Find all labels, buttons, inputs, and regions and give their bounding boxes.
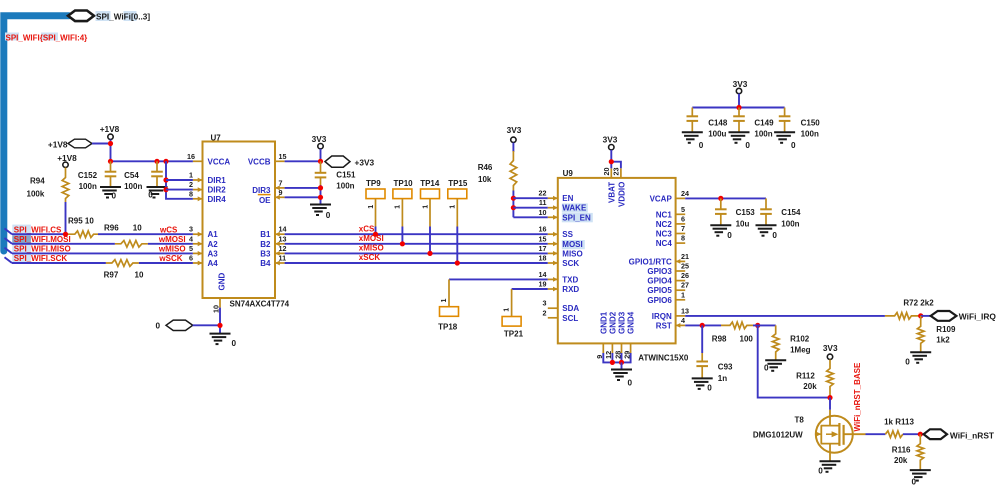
wire VCCB to 3V3: [285, 160, 321, 162]
U9 pin 13 IRQN: [676, 315, 686, 317]
U9 pin 6 NC2: [676, 223, 686, 225]
wire EN: [513, 197, 547, 199]
junction: [400, 241, 405, 246]
wire U9 gnd bracket: [603, 353, 630, 362]
junction EN: [511, 196, 516, 201]
resistor R94 100k: [62, 168, 69, 203]
wire TP14 to row: [429, 227, 431, 254]
svg-text:0: 0: [745, 141, 750, 150]
svg-text:GND1: GND1: [599, 311, 608, 334]
highlight MOSI dark: [12, 235, 31, 244]
U9 pin 20 VBAT: [610, 168, 612, 178]
highlight WAKE: [562, 203, 588, 212]
wire DIR2: [166, 189, 193, 191]
svg-text:C148: C148: [708, 118, 728, 127]
svg-text:0: 0: [155, 322, 160, 331]
svg-text:SCK: SCK: [562, 259, 579, 268]
wire MOSI: [12, 243, 115, 245]
port WiFi_nRST: [924, 429, 947, 439]
svg-text:8: 8: [681, 234, 685, 243]
ground C93: [692, 377, 713, 379]
capacitor C150 100n: [784, 108, 786, 117]
U9 pin 24 VCAP: [676, 197, 686, 199]
svg-text:3: 3: [189, 225, 193, 234]
wire C151 to gnd thru DIR3/OE taps: [320, 185, 322, 205]
junction: [373, 232, 378, 237]
svg-text:VDDIO: VDDIO: [617, 182, 626, 207]
svg-text:VCCA: VCCA: [208, 157, 231, 166]
IC U9 ATWINC15X0 body: [558, 178, 676, 344]
ground C148: [682, 131, 703, 133]
svg-text:TP9: TP9: [366, 179, 381, 188]
svg-text:MOSI: MOSI: [562, 240, 582, 249]
svg-text:+1V8: +1V8: [57, 153, 77, 163]
svg-text:WiFi_IRQ: WiFi_IRQ: [959, 312, 997, 322]
U9 pin 17 MISO: [548, 252, 558, 254]
ground C54: [147, 186, 168, 188]
wire flag to node: [92, 143, 111, 145]
testpoint TP15: [448, 189, 467, 199]
U7 pin 8 DIR4: [193, 198, 203, 200]
svg-text:C149: C149: [754, 118, 774, 127]
svg-text:0: 0: [112, 192, 117, 201]
wire gnd stem: [621, 362, 623, 369]
wire xMISO: [285, 252, 548, 254]
svg-text:0: 0: [791, 141, 796, 150]
svg-text:8: 8: [189, 189, 193, 198]
U9 pin 5 NC1: [676, 213, 686, 215]
capacitor C54 100n: [156, 161, 158, 171]
svg-text:T8: T8: [795, 416, 805, 425]
bus SPI_WIFI (thick): [4, 16, 69, 251]
svg-text:23: 23: [612, 168, 621, 176]
svg-text:SCL: SCL: [562, 314, 578, 323]
U9 GND pins 9 12 28 29: [602, 343, 604, 353]
U9 pin 18 SCK: [548, 262, 558, 264]
wire to R102: [753, 324, 776, 326]
svg-text:C54: C54: [124, 171, 139, 180]
svg-text:0: 0: [912, 478, 917, 487]
svg-text:SPI_WIFI.CS: SPI_WIFI.CS: [14, 225, 62, 234]
junction: [455, 260, 460, 265]
wire 3V3 to VBAT/VDDIO: [610, 150, 612, 168]
highlight column: [12, 225, 31, 264]
svg-text:10u: 10u: [736, 219, 750, 228]
U9 pin 27 GPIO5: [676, 289, 686, 291]
junction rail: [108, 159, 113, 164]
wire to port: [921, 315, 931, 317]
U9 pin 14 TXD: [548, 278, 558, 280]
junction: [755, 323, 760, 328]
svg-text:NC2: NC2: [656, 220, 673, 229]
svg-text:100u: 100u: [708, 130, 726, 139]
bus entry MISO: [5, 248, 13, 254]
svg-text:TP14: TP14: [420, 179, 440, 188]
wire wSCK: [139, 262, 193, 264]
ground C149: [729, 131, 750, 133]
svg-text:VBAT: VBAT: [608, 182, 617, 203]
svg-text:7: 7: [279, 178, 283, 187]
U9 pin 8 NC4: [676, 242, 686, 244]
wire RXD: [512, 288, 548, 290]
svg-text:SPI_WIFI.SCK: SPI_WIFI.SCK: [14, 254, 68, 263]
svg-text:GND3: GND3: [618, 311, 627, 334]
svg-text:18: 18: [539, 254, 547, 263]
U9 pin 3 SDA: [548, 307, 558, 309]
svg-text:wSCK: wSCK: [158, 254, 182, 263]
wire RST: [685, 324, 721, 326]
svg-text:VCAP: VCAP: [650, 194, 673, 203]
svg-text:SPI_WIFI{SPI_WIFI:4}: SPI_WIFI{SPI_WIFI:4}: [6, 34, 88, 43]
U7 pin 6 A4: [193, 262, 203, 264]
svg-text:15: 15: [279, 152, 287, 161]
svg-text:100n: 100n: [781, 219, 799, 228]
power flag +3V3 hexagon: [325, 156, 350, 167]
testpoint TP21: [511, 289, 513, 317]
capacitor C93 1n: [701, 325, 703, 353]
svg-text:C150: C150: [801, 118, 821, 127]
svg-text:TP18: TP18: [438, 323, 458, 332]
svg-text:5: 5: [681, 205, 685, 214]
svg-text:GPIO1/RTC: GPIO1/RTC: [629, 257, 672, 266]
resistor R113 1k: [885, 431, 903, 438]
capacitor C152 100n: [110, 161, 112, 171]
ground U9: [611, 369, 632, 371]
junction WAKE: [511, 205, 516, 210]
svg-text:WiFi_nRST: WiFi_nRST: [950, 430, 995, 440]
svg-text:15: 15: [539, 234, 547, 243]
svg-text:0: 0: [764, 363, 769, 372]
svg-text:27: 27: [681, 281, 689, 290]
svg-text:100n: 100n: [336, 182, 354, 191]
capacitor C149 100n: [738, 108, 740, 117]
svg-text:100k: 100k: [27, 190, 45, 199]
U9 pin 7 NC3: [676, 233, 686, 235]
junction gate node: [827, 395, 832, 400]
svg-text:R116: R116: [892, 445, 911, 454]
U9 pin 26 GPIO4: [676, 280, 686, 282]
wire gate node down: [829, 398, 831, 410]
wire +1V8 down: [110, 140, 112, 162]
junction: [918, 313, 923, 318]
U9 pin 10 SPI_EN: [548, 216, 558, 218]
junction: [736, 105, 741, 110]
U7 pin 10 GND: [219, 298, 221, 308]
wire xSCK: [285, 262, 548, 264]
U7 pin 15 VCCB: [275, 160, 285, 162]
svg-text:100n: 100n: [79, 182, 97, 191]
U9 pin 2 SCL: [548, 317, 558, 319]
svg-text:10k: 10k: [478, 175, 492, 184]
junction 3V3: [318, 159, 323, 164]
transistor T8 DMG1012UW: [816, 416, 853, 453]
svg-text:U9: U9: [563, 169, 574, 178]
resistor R109 1k2: [917, 316, 924, 352]
svg-text:A1: A1: [208, 230, 219, 239]
svg-text:U7: U7: [211, 134, 222, 143]
U7 pin 12 B3: [275, 252, 285, 254]
resistor R96 10: [115, 241, 148, 248]
junctions: [610, 360, 615, 365]
svg-text:IRQN: IRQN: [652, 312, 672, 321]
svg-text:OE: OE: [259, 196, 271, 205]
U7 pin 3 A1: [193, 233, 203, 235]
wire gate to R113: [866, 433, 886, 435]
svg-text:C152: C152: [78, 171, 98, 180]
svg-text:9: 9: [279, 188, 283, 197]
wire TP10 to row: [401, 227, 403, 244]
junction: [609, 159, 614, 164]
svg-text:R98: R98: [712, 334, 727, 343]
wire WAKE: [513, 207, 547, 209]
svg-text:xMISO: xMISO: [359, 244, 384, 253]
junction: [318, 185, 323, 190]
svg-text:11: 11: [279, 254, 287, 263]
U9 pin 19 RXD: [548, 288, 558, 290]
svg-text:14: 14: [279, 225, 287, 234]
bus port SPI_WiFi[0..3]: [68, 11, 94, 22]
svg-text:0: 0: [628, 379, 633, 388]
svg-text:3V3: 3V3: [823, 343, 838, 353]
svg-text:0: 0: [699, 141, 704, 150]
svg-text:VCCB: VCCB: [248, 157, 271, 166]
wire MISO: [12, 252, 193, 254]
svg-text:A3: A3: [208, 249, 219, 258]
wire xCS: [285, 233, 548, 235]
svg-text:1: 1: [189, 171, 193, 180]
capacitor C153 10u: [720, 198, 722, 209]
ground C154: [756, 224, 777, 226]
highlight SPI_EN: [562, 213, 593, 222]
resistor R97 10: [106, 260, 139, 267]
svg-text:3V3: 3V3: [507, 125, 522, 135]
svg-text:GND4: GND4: [627, 311, 636, 334]
wire SCK: [12, 262, 106, 264]
wire TP9 to row: [375, 227, 377, 235]
svg-text:1: 1: [420, 205, 429, 209]
ground R102: [765, 359, 786, 361]
svg-text:xMOSI: xMOSI: [359, 234, 384, 243]
svg-text:SS: SS: [562, 230, 573, 239]
svg-text:20: 20: [602, 168, 611, 176]
svg-text:DIR1: DIR1: [208, 176, 227, 185]
U9 pin 1 GPIO6: [676, 299, 686, 301]
U9 pin 4 RST: [676, 324, 686, 326]
bus net label SPI_WIFI{SPI_WIFI:4}: [5, 33, 19, 41]
svg-text:6: 6: [189, 254, 193, 263]
svg-text:11: 11: [539, 198, 547, 207]
ground C152: [100, 186, 121, 188]
U7 pin 2 DIR2: [193, 189, 203, 191]
junction: [918, 432, 923, 437]
channel arrow: [826, 433, 832, 435]
svg-text:B3: B3: [260, 249, 271, 258]
svg-text:13: 13: [279, 234, 287, 243]
svg-text:1: 1: [448, 205, 457, 209]
svg-text:wMISO: wMISO: [158, 245, 186, 254]
svg-text:RXD: RXD: [562, 285, 579, 294]
svg-text:NC4: NC4: [656, 239, 673, 248]
wire wCS: [98, 233, 193, 235]
svg-text:+1V8: +1V8: [100, 124, 120, 134]
svg-text:TP21: TP21: [504, 330, 524, 339]
wire DIR1: [166, 179, 193, 181]
svg-text:20k: 20k: [803, 382, 817, 391]
svg-text:4: 4: [681, 316, 685, 325]
svg-text:25: 25: [681, 262, 689, 271]
svg-text:100n: 100n: [754, 130, 772, 139]
bus entry MOSI: [5, 238, 13, 244]
U9 pin 22 EN: [548, 197, 558, 199]
wire +1V8 rail: [111, 160, 193, 162]
resistor R116 20k: [917, 434, 924, 470]
svg-text:SN74AXC4T774: SN74AXC4T774: [230, 299, 290, 308]
IC U7 SN74AXC4T774 body: [203, 142, 276, 299]
resistor R98 100: [721, 322, 753, 329]
svg-text:100n: 100n: [801, 130, 819, 139]
svg-text:DIR2: DIR2: [208, 186, 227, 195]
U9 pin 11 WAKE: [548, 207, 558, 209]
capacitor C148 100u: [691, 108, 693, 117]
svg-text:R95 10: R95 10: [68, 217, 94, 226]
svg-text:B1: B1: [260, 230, 271, 239]
wire OE: [285, 196, 321, 198]
svg-text:21: 21: [681, 252, 689, 261]
svg-text:NC3: NC3: [656, 230, 673, 239]
U7 pin 11 B4: [275, 262, 285, 264]
svg-text:TXD: TXD: [562, 275, 578, 284]
testpoint TP14: [421, 189, 440, 199]
U7 pin 14 B1: [275, 233, 285, 235]
svg-text:26: 26: [681, 271, 689, 280]
svg-text:1n: 1n: [718, 374, 727, 383]
port WiFi_IRQ: [931, 311, 957, 321]
svg-text:100: 100: [740, 334, 754, 343]
U9 pin 21 GPIO1/RTC: [676, 260, 686, 262]
svg-text:GPIO6: GPIO6: [647, 296, 672, 305]
svg-text:R96: R96: [104, 224, 119, 233]
svg-text:GND: GND: [218, 273, 227, 291]
svg-text:10: 10: [133, 224, 142, 233]
svg-text:5: 5: [189, 244, 193, 253]
wire RST to gate node: [758, 325, 830, 397]
svg-text:C154: C154: [781, 208, 801, 217]
svg-text:0: 0: [772, 231, 777, 240]
wire flag0: [193, 324, 220, 326]
svg-text:3V3: 3V3: [312, 134, 327, 144]
svg-text:R109: R109: [936, 325, 956, 334]
svg-text:1: 1: [366, 205, 375, 209]
svg-text:1: 1: [501, 308, 510, 312]
capacitor C154 100n: [765, 198, 767, 209]
svg-text:1k R113: 1k R113: [884, 418, 914, 427]
ground C150: [774, 131, 795, 133]
svg-text:WAKE: WAKE: [562, 204, 587, 213]
body arrow: [816, 431, 822, 436]
svg-text:+3V3: +3V3: [355, 157, 375, 167]
svg-text:GND2: GND2: [608, 311, 617, 334]
svg-text:10: 10: [135, 270, 144, 279]
svg-text:17: 17: [539, 244, 547, 253]
svg-text:0: 0: [727, 231, 732, 240]
power port +1V8 (circle): [108, 134, 113, 139]
svg-text:3V3: 3V3: [603, 134, 618, 144]
svg-text:2: 2: [189, 180, 193, 189]
svg-text:16: 16: [539, 225, 547, 234]
svg-text:1Meg: 1Meg: [790, 346, 811, 355]
wire 3V3 rail: [738, 94, 740, 108]
svg-text:1: 1: [439, 299, 448, 303]
svg-text:6: 6: [681, 214, 685, 223]
U7 pin 9 OE: [275, 196, 285, 198]
U9 pin 16 SS: [548, 233, 558, 235]
bus entry SCK: [5, 257, 13, 263]
svg-text:SDA: SDA: [562, 304, 579, 313]
junction: [700, 323, 705, 328]
svg-text:12: 12: [279, 244, 287, 253]
wire DIR drop: [166, 161, 193, 199]
svg-text:wMOSI: wMOSI: [158, 235, 186, 244]
svg-text:22: 22: [539, 189, 547, 198]
U9 pin 25 GPIO3: [676, 270, 686, 272]
svg-text:R94: R94: [30, 177, 45, 186]
svg-text:MISO: MISO: [562, 249, 582, 258]
gate wire: [844, 433, 866, 435]
svg-text:GPIO3: GPIO3: [647, 267, 672, 276]
testpoint TP10: [393, 189, 412, 199]
svg-text:R72 2k2: R72 2k2: [903, 299, 934, 308]
svg-text:TP10: TP10: [394, 179, 414, 188]
svg-text:DIR4: DIR4: [208, 195, 227, 204]
svg-text:13: 13: [681, 306, 689, 315]
ground R109: [910, 351, 931, 353]
svg-text:16: 16: [187, 152, 195, 161]
wire 3V3 down: [320, 149, 322, 161]
power flag +1V8 hexagon: [68, 139, 92, 148]
ground C151: [310, 204, 331, 206]
svg-text:GPIO5: GPIO5: [647, 286, 672, 295]
resistor R72 2k2: [885, 313, 921, 320]
svg-text:0: 0: [818, 466, 823, 475]
svg-text:R112: R112: [796, 372, 815, 381]
label SPI_WiFi[0..3]: [96, 11, 111, 21]
wire GND down: [219, 308, 221, 334]
resistor R102 1Meg: [772, 325, 779, 360]
svg-text:19: 19: [539, 280, 547, 289]
svg-text:2: 2: [543, 308, 547, 317]
junction: [108, 141, 113, 146]
U9 pin 23 VDDIO: [620, 168, 622, 178]
wire R113 to port: [903, 433, 924, 435]
ground C153: [710, 224, 731, 226]
ground U7: [210, 333, 231, 335]
svg-text:R97: R97: [104, 270, 119, 279]
highlight MOSI: [562, 240, 585, 249]
wire R94 to CS: [65, 202, 67, 234]
svg-text:DIR3: DIR3: [252, 186, 271, 195]
svg-text:A4: A4: [208, 259, 219, 268]
svg-text:10: 10: [539, 208, 547, 217]
svg-text:xCS: xCS: [359, 224, 375, 233]
svg-text:SPI_EN: SPI_EN: [562, 213, 591, 222]
svg-text:3V3: 3V3: [733, 79, 748, 89]
junction DIR1: [163, 177, 168, 182]
svg-text:7: 7: [681, 224, 685, 233]
net flag 0: [166, 320, 193, 330]
ground T8: [820, 460, 841, 462]
wire 3V3 to R46: [512, 143, 514, 152]
svg-text:4: 4: [189, 234, 193, 243]
